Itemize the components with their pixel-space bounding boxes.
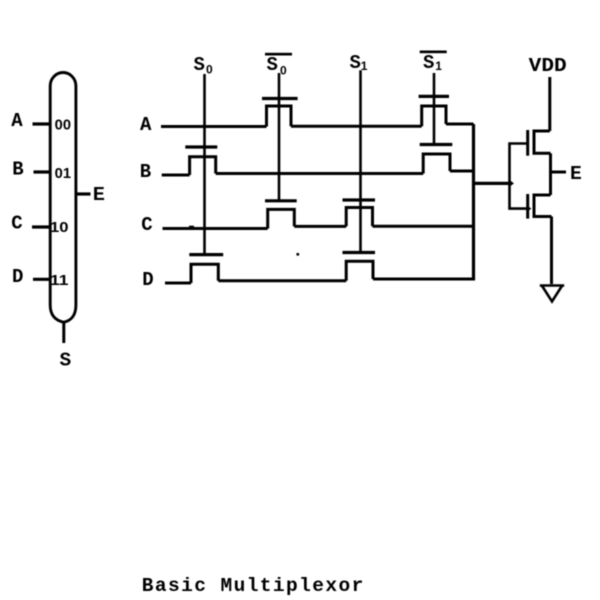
svg-text:E: E xyxy=(570,163,582,185)
arrowhead at NMOS gate xyxy=(528,206,532,211)
transistor M1 PMOS gate bar xyxy=(526,130,529,156)
svg-text:D: D xyxy=(142,269,153,291)
transistor M1 PMOS channel xyxy=(534,131,551,153)
svg-text:1: 1 xyxy=(361,59,368,73)
pin S stub (mux) xyxy=(62,322,65,343)
net S0bar overbar xyxy=(265,53,292,56)
wire row A middle xyxy=(291,125,422,128)
svg-text:S: S xyxy=(194,54,205,76)
pin A stub (mux) xyxy=(33,122,51,125)
net S1bar overbar xyxy=(420,51,447,54)
svg-text:VDD: VDD xyxy=(529,55,567,77)
svg-text:B: B xyxy=(140,161,151,183)
wire: node to inverter gate xyxy=(474,182,511,185)
wire row A left xyxy=(161,125,267,128)
svg-text:10: 10 xyxy=(50,220,69,236)
pin E stub (inverter output) xyxy=(551,171,567,174)
transistor M2 NMOS gate bar xyxy=(526,194,529,219)
mux symbol U1 body (pill) xyxy=(50,73,76,323)
svg-text:B: B xyxy=(12,158,23,180)
svg-text:0: 0 xyxy=(206,63,213,77)
wire row A right xyxy=(446,123,474,126)
svg-text:11: 11 xyxy=(50,273,69,289)
svg-text:D: D xyxy=(12,266,23,288)
wire row C right xyxy=(373,225,474,228)
svg-text:S: S xyxy=(267,54,278,76)
svg-text:S: S xyxy=(350,52,361,74)
transistor Q5 (row C, gate S0bar) xyxy=(265,201,297,229)
stray dot xyxy=(297,253,300,256)
pin E stub (mux) xyxy=(76,192,91,195)
wire row D middle xyxy=(218,279,346,282)
transistor Q1 (row A, gate S0bar) xyxy=(262,99,298,127)
transistor Q8 (row D, gate S1) xyxy=(343,253,376,281)
svg-text:C: C xyxy=(141,214,152,236)
transistor M2 NMOS channel xyxy=(534,195,552,217)
wire: common output node xyxy=(472,124,475,281)
wire row B left xyxy=(162,174,190,177)
arrow tick on wire C xyxy=(189,226,194,228)
wire: column S0 xyxy=(203,74,206,255)
pin C stub (mux) xyxy=(32,225,50,228)
svg-text:Basic Multiplexor: Basic Multiplexor xyxy=(142,575,363,597)
pin D stub (mux) xyxy=(33,278,50,281)
ground symbol xyxy=(540,286,564,302)
svg-text:A: A xyxy=(140,114,152,136)
wire: column S1bar xyxy=(433,73,436,145)
svg-text:E: E xyxy=(93,184,105,206)
wire: column S0bar xyxy=(278,73,281,201)
svg-text:00: 00 xyxy=(55,118,71,134)
transistor Q4 (row B, gate S1bar) xyxy=(420,145,453,174)
svg-text:0: 0 xyxy=(280,64,287,78)
svg-text:S: S xyxy=(423,52,434,74)
svg-text:A: A xyxy=(11,110,23,132)
transistor Q6 (row C, gate S1) xyxy=(343,200,376,226)
pin B stub (mux) xyxy=(34,170,51,173)
transistor Q2 (row A, gate S1bar) xyxy=(419,96,449,126)
wire row B right xyxy=(450,170,474,173)
svg-text:S: S xyxy=(60,350,72,372)
arrowhead at gate input xyxy=(511,181,515,186)
wire: column S1 xyxy=(359,70,362,252)
svg-text:01: 01 xyxy=(55,166,71,182)
wire row D left xyxy=(165,282,191,285)
svg-text:C: C xyxy=(11,213,22,235)
transistor Q3 (row B, gate S0) xyxy=(185,147,217,175)
wire row C left xyxy=(163,227,268,230)
wire row C middle xyxy=(294,225,346,228)
wire: inverter gate line xyxy=(510,144,528,209)
svg-text:1: 1 xyxy=(435,59,442,73)
wire row B middle xyxy=(216,172,424,175)
wire: NMOS source to ground xyxy=(550,217,553,285)
wire: inverter output node xyxy=(549,153,552,195)
transistor Q7 (row D, gate S0) xyxy=(189,255,223,283)
wire row D right xyxy=(373,278,474,281)
wire: VDD supply xyxy=(548,77,551,131)
